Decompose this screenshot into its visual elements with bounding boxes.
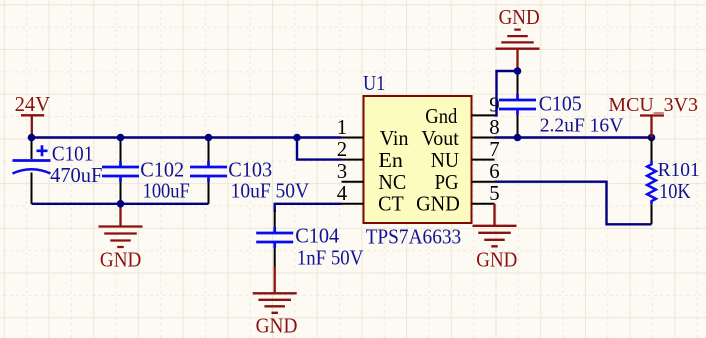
capacitor C103 top pin <box>208 138 210 162</box>
svg-text:6: 6 <box>489 160 499 183</box>
svg-text:NU: NU <box>431 150 459 172</box>
capacitor C101 top pin <box>31 138 33 160</box>
ground symbol under C104 <box>253 293 297 313</box>
svg-text:100uF: 100uF <box>143 178 190 202</box>
junction En branch <box>293 134 301 142</box>
svg-text:4: 4 <box>337 182 348 205</box>
ground GND stub above C105 (inverted) <box>516 49 518 71</box>
power port 24V <box>21 115 44 137</box>
svg-text:En: En <box>378 150 403 172</box>
svg-text:3: 3 <box>337 160 347 183</box>
power port MCU_3V3 <box>640 116 664 138</box>
svg-text:PG: PG <box>435 172 459 194</box>
resistor R101 bottom pin <box>651 204 653 224</box>
junction C102 bottom / GND <box>117 200 125 208</box>
wire ground bus C101-C103 <box>32 203 209 205</box>
svg-text:R101: R101 <box>658 159 700 181</box>
capacitor C105 bottom pin <box>517 115 519 138</box>
svg-text:470uF: 470uF <box>50 163 102 187</box>
wire pin 4 (CT) to C104 <box>275 204 342 212</box>
junction 24V/C101 <box>28 134 36 142</box>
svg-text:5: 5 <box>489 182 499 205</box>
wire pin 6 (PG) to R101 bottom <box>495 182 652 225</box>
capacitor C103 body <box>190 161 227 182</box>
svg-text:24V: 24V <box>15 94 51 116</box>
resistor R101 body <box>647 161 656 204</box>
ground symbol under pin 5 <box>473 226 517 247</box>
U1 pin 6 <box>472 181 495 183</box>
junction C103 top <box>205 134 213 142</box>
svg-text:10K: 10K <box>659 179 691 203</box>
U1 pin 5 <box>472 203 495 205</box>
svg-text:GND: GND <box>416 194 460 216</box>
capacitor C105 body <box>499 94 536 115</box>
svg-text:Vout: Vout <box>421 128 459 150</box>
U1 pin 3 <box>342 181 364 183</box>
svg-text:10uF 50V: 10uF 50V <box>231 178 310 202</box>
svg-text:GND: GND <box>100 247 141 271</box>
svg-text:C105: C105 <box>539 92 582 116</box>
resistor R101 top pin <box>651 138 653 162</box>
svg-text:9: 9 <box>489 93 499 116</box>
U1 pin 1 <box>342 137 364 139</box>
capacitor C101 bottom pin <box>31 173 33 204</box>
capacitor C104 top pin <box>274 210 276 227</box>
svg-text:7: 7 <box>489 138 499 161</box>
svg-text:GND: GND <box>476 248 517 272</box>
ground symbol under C102 <box>99 227 143 248</box>
inverted ground symbol above C105 <box>496 30 540 49</box>
svg-text:2.2uF 16V: 2.2uF 16V <box>540 114 624 136</box>
capacitor C102 bottom pin <box>120 182 122 204</box>
C101 plus sign <box>37 145 48 156</box>
svg-text:1: 1 <box>337 116 347 139</box>
junction GND/C105 top <box>514 67 522 75</box>
junction C105 bottom / Vout <box>514 134 522 142</box>
op-amp U1 body TPS7A6633 <box>364 96 472 223</box>
svg-text:C104: C104 <box>295 223 340 247</box>
capacitor C105 top pin <box>517 71 519 94</box>
svg-text:TPS7A6633: TPS7A6633 <box>366 225 462 249</box>
capacitor C102 body <box>102 161 139 182</box>
svg-text:Vin: Vin <box>380 128 409 150</box>
ground GND stub at C104 <box>274 266 276 293</box>
wire Vout bus pin 8 to MCU_3V3 <box>495 136 652 138</box>
capacitor C104 bottom pin <box>274 248 276 268</box>
wire pin 9 (Gnd) up to GND/C105 node <box>495 71 518 115</box>
svg-text:MCU_3V3: MCU_3V3 <box>608 94 698 116</box>
capacitor C102 top pin <box>120 138 122 162</box>
wire branch to pin 2 (En) <box>297 138 342 160</box>
svg-text:8: 8 <box>489 116 499 139</box>
ground GND stub at C102 <box>119 204 121 227</box>
svg-text:GND: GND <box>499 5 540 29</box>
svg-text:CT: CT <box>378 194 404 216</box>
svg-text:2: 2 <box>337 138 347 161</box>
svg-text:Gnd: Gnd <box>425 106 458 128</box>
junction C102 top <box>117 134 125 142</box>
ground GND stub at pin 5 <box>493 204 495 226</box>
U1 pin 7 <box>472 159 495 161</box>
svg-text:NC: NC <box>378 172 406 194</box>
capacitor C103 bottom pin <box>208 182 210 204</box>
U1 pin 2 <box>342 159 364 161</box>
U1 pin 8 <box>472 137 495 139</box>
capacitor C101 polarized body <box>13 159 51 162</box>
U1 pin 9 <box>472 114 495 116</box>
junction MCU_3V3 / R101 <box>648 134 656 142</box>
wire 24V bus to pin 1 (Vin) <box>32 136 342 138</box>
capacitor C104 body <box>256 227 293 248</box>
svg-text:1nF 50V: 1nF 50V <box>297 246 363 270</box>
U1 pin 4 <box>342 203 364 205</box>
svg-text:U1: U1 <box>363 71 385 95</box>
svg-text:GND: GND <box>256 314 298 338</box>
